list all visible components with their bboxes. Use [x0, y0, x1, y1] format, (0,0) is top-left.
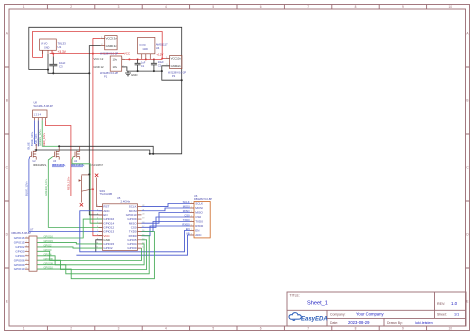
- wire RXD0: [142, 226, 191, 236]
- svg-text:U6: U6: [194, 194, 198, 198]
- U6 pin stubs: [190, 204, 194, 236]
- svg-text:BLUE: BLUE: [27, 142, 31, 149]
- wire navy channel pin2: [37, 120, 39, 146]
- wire MISO: [142, 213, 191, 224]
- frame column ticks top: [47, 5, 426, 10]
- svg-text:B: B: [466, 99, 468, 103]
- svg-text:C2: C2: [158, 63, 162, 67]
- svg-text:2: 2: [70, 5, 72, 9]
- svg-text:C3: C3: [59, 64, 63, 68]
- U5 right pin names: [126, 205, 138, 251]
- wire U1 input jog: [33, 50, 43, 57]
- regulator U1: [40, 39, 57, 54]
- wire gnd horizontal: [29, 70, 90, 74]
- node 12v rail P1: [128, 58, 130, 60]
- svg-text:VCC 12: VCC 12: [94, 57, 104, 61]
- connector U6 box: [194, 202, 210, 238]
- wire 12V top red: [33, 32, 166, 59]
- svg-text:Sheet_1: Sheet_1: [307, 301, 328, 307]
- svg-text:9: 9: [402, 327, 404, 331]
- title block row line 1: [287, 309, 466, 311]
- svg-text:E: E: [6, 300, 8, 304]
- wire gnd rail lower: [127, 70, 162, 72]
- svg-text:GPIO16: GPIO16: [14, 236, 25, 240]
- U6 net labels: [182, 200, 190, 236]
- svg-text:4: 4: [191, 216, 192, 218]
- svg-text:8: 8: [191, 234, 192, 236]
- svg-text:WJ128V-5.0-2P: WJ128V-5.0-2P: [168, 71, 186, 75]
- svg-text:Sheet:: Sheet:: [437, 313, 447, 317]
- svg-text:1: 1: [23, 327, 25, 331]
- svg-text:5: 5: [26, 254, 27, 256]
- svg-text:TS-KG03B: TS-KG03B: [100, 192, 113, 196]
- node gnd junction C3: [52, 72, 54, 74]
- svg-text:3: 3: [118, 327, 120, 331]
- wire EN from switch net: [89, 174, 102, 215]
- svg-text:10v: 10v: [113, 65, 118, 69]
- wire 3.3V rail: [50, 50, 124, 53]
- svg-text:IRF244NS,: IRF244NS,: [33, 163, 47, 167]
- svg-text:GND 12: GND 12: [94, 65, 105, 69]
- svg-text:GPIO4: GPIO4: [15, 254, 25, 258]
- node switch wiper junction: [92, 188, 94, 190]
- wire green channel pin3: [41, 120, 43, 146]
- svg-text:10: 10: [449, 327, 453, 331]
- wire GPIO06 loop: [37, 240, 147, 270]
- svg-text:10: 10: [449, 5, 453, 9]
- svg-text:2: 2: [191, 207, 192, 209]
- U6 pin names: [195, 202, 203, 238]
- capacitor C1: [135, 59, 141, 71]
- wire EN loop: [76, 235, 190, 255]
- title block rev divider: [434, 292, 436, 318]
- U5 right pin stubs: [138, 207, 142, 249]
- svg-text:5: 5: [212, 327, 214, 331]
- node 12v rail P2: [161, 58, 163, 60]
- svg-text:GPIO10: GPIO10: [14, 267, 25, 271]
- wire GND loop: [29, 27, 182, 154]
- svg-text:10uF: 10uF: [158, 60, 164, 64]
- svg-text:1: 1: [26, 237, 27, 239]
- node rail Q2 drain: [58, 145, 60, 147]
- svg-text:REV:: REV:: [437, 302, 445, 306]
- svg-text:C1: C1: [141, 64, 145, 68]
- svg-text:BLUE_12V+: BLUE_12V+: [30, 131, 34, 146]
- wire source rail A green part: [42, 145, 58, 147]
- svg-text:P2: P2: [172, 74, 176, 78]
- wire TXD0: [142, 222, 191, 232]
- node rail Q1 drain: [35, 149, 37, 151]
- svg-text:IRF2440S,: IRF2440S,: [52, 163, 66, 167]
- svg-text:Date:: Date:: [330, 321, 338, 325]
- node switch top junction: [88, 173, 90, 175]
- EasyEDA logo icon: [289, 313, 301, 321]
- svg-text:RED_12V+: RED_12V+: [66, 176, 70, 190]
- node gnd junction 1: [47, 69, 49, 71]
- frame row ticks left: [5, 67, 10, 268]
- transistor Q1: [30, 144, 36, 160]
- svg-text:1: 1: [191, 202, 192, 204]
- wire CS0: [142, 217, 191, 227]
- wire GPIO4 loop: [37, 244, 144, 265]
- svg-text:1: 1: [23, 5, 25, 9]
- svg-text:RXD0: RXD0: [195, 224, 203, 228]
- connector VCC3.3 box: [101, 36, 117, 50]
- svg-text:3: 3: [191, 211, 192, 213]
- U7 pin names blue: [14, 236, 25, 271]
- wire GPIO2: [37, 247, 103, 248]
- svg-text:RED_12V+: RED_12V+: [42, 132, 46, 146]
- svg-text:2: 2: [26, 241, 27, 243]
- svg-text:B: B: [6, 99, 8, 103]
- svg-text:8: 8: [355, 5, 357, 9]
- svg-text:10v: 10v: [113, 57, 118, 61]
- svg-text:3.3v: 3.3v: [111, 44, 117, 48]
- svg-text:CS190867: CS190867: [90, 163, 104, 167]
- svg-text:GPIO2: GPIO2: [15, 245, 25, 249]
- title block outline: [287, 292, 466, 326]
- svg-text:ADC: ADC: [195, 233, 202, 237]
- svg-text:GPIO0: GPIO0: [15, 249, 25, 253]
- svg-text:E: E: [466, 300, 468, 304]
- op-amp U5 MCU box: [103, 204, 138, 251]
- wire GPIO15: [37, 242, 103, 244]
- transistor Q2: [53, 146, 59, 159]
- node rail junction C3: [52, 53, 54, 55]
- node gnd junction riser: [88, 72, 90, 74]
- U5 right pin numbers: [142, 205, 145, 249]
- svg-text:6: 6: [191, 225, 192, 227]
- no-connect cross top: [95, 174, 98, 177]
- svg-text:GND: GND: [131, 73, 137, 77]
- node loop edge junction: [181, 79, 183, 81]
- capacitor C3: [49, 57, 57, 74]
- svg-text:DB128V-5.08-8P: DB128V-5.08-8P: [12, 231, 32, 235]
- svg-text:3.3v: 3.3v: [111, 37, 117, 41]
- node 12v rail C2: [153, 58, 155, 60]
- svg-text:8: 8: [26, 268, 27, 270]
- switch SW1: [81, 175, 102, 207]
- svg-text:WJ128L-5.08-3P: WJ128L-5.08-3P: [34, 104, 54, 108]
- wire GPIO16: [37, 219, 103, 238]
- svg-text:DB128V-5.0-8P: DB128V-5.0-8P: [194, 197, 212, 201]
- svg-text:luki.leisten: luki.leisten: [415, 321, 433, 325]
- switch wiper arrow: [79, 179, 82, 181]
- svg-text:GPIO15: GPIO15: [14, 241, 25, 245]
- svg-text:2023-08-29: 2023-08-29: [348, 320, 370, 325]
- svg-text:GREEN_12V+: GREEN_12V+: [38, 129, 42, 146]
- ground symbol: [125, 71, 131, 76]
- svg-text:GREEN_12V+: GREEN_12V+: [44, 178, 48, 196]
- wire Q1 gate blue long: [29, 157, 103, 232]
- U6 pin numbers: [191, 202, 192, 236]
- svg-text:7: 7: [191, 229, 192, 231]
- svg-text:4: 4: [165, 5, 167, 9]
- connector U7 box: [29, 236, 37, 271]
- svg-text:GPIO06: GPIO06: [14, 258, 25, 262]
- svg-text:WJ128V-5.0-2P: WJ128V-5.0-2P: [100, 51, 118, 55]
- wire U1 gnd pin down: [47, 54, 49, 70]
- wire Q3 gate green long: [72, 157, 103, 224]
- wire Q2 gate green long: [48, 157, 102, 228]
- svg-text:7: 7: [26, 263, 27, 265]
- wire GPIO09 loop: [37, 236, 149, 274]
- connector P1 box: [110, 56, 125, 71]
- svg-text:4: 4: [165, 327, 167, 331]
- transistor Q3: [73, 146, 79, 159]
- capacitor C3 red lead: [52, 54, 54, 57]
- wire P2 gnd to loop: [162, 66, 182, 80]
- wire GPIO0 loop: [37, 248, 142, 260]
- wire MOSI: [142, 208, 191, 211]
- connector U8 RGB box: [33, 110, 47, 120]
- svg-text:CS0: CS0: [195, 215, 201, 219]
- svg-text:9: 9: [402, 5, 404, 9]
- node junction on loop bottom 2: [152, 153, 154, 155]
- svg-text:GPIO0: GPIO0: [127, 246, 137, 250]
- no-connect cross bottom: [80, 203, 83, 206]
- svg-text:MOSI: MOSI: [195, 206, 203, 210]
- wire vcc rail down to U5: [93, 38, 103, 235]
- svg-text:12v: 12v: [176, 57, 181, 61]
- svg-text:EasyEDA: EasyEDA: [301, 316, 328, 322]
- svg-text:6: 6: [260, 327, 262, 331]
- wire source rail B: [35, 150, 150, 154]
- svg-text:TXD0: TXD0: [195, 220, 203, 224]
- wire gnd3.3 pin2 black: [89, 46, 100, 175]
- wire SCLK: [142, 204, 191, 207]
- frame row ticks right: [466, 67, 470, 268]
- svg-text:P1: P1: [104, 74, 108, 78]
- frame column ticks bottom: [47, 326, 426, 331]
- svg-text:+12V: +12V: [156, 52, 163, 56]
- svg-text:VCC: VCC: [124, 51, 131, 55]
- node 12v rail C1: [137, 58, 139, 60]
- title block row line 2: [327, 317, 466, 319]
- svg-text:VI VO: VI VO: [139, 44, 146, 47]
- svg-text:7: 7: [307, 327, 309, 331]
- regulator U4: [138, 37, 155, 59]
- node 12v rail U4: [145, 58, 147, 60]
- svg-text:U8: U8: [34, 101, 38, 105]
- svg-text:1 2 3 4: 1 2 3 4: [34, 113, 42, 116]
- U7 pin stubs: [25, 238, 29, 269]
- wire ADC loop: [80, 211, 190, 252]
- svg-text:GPIO09: GPIO09: [14, 263, 25, 267]
- wire blue channel to Q1: [34, 120, 36, 144]
- U5 left pin numbers: [96, 205, 99, 249]
- svg-text:WJ128V-5.0-2P: WJ128V-5.0-2P: [100, 71, 118, 75]
- svg-text:6: 6: [260, 5, 262, 9]
- svg-text:U7: U7: [30, 227, 34, 231]
- wire vcc3.3 pin1 red: [93, 37, 101, 39]
- svg-text:BLUE_12V+: BLUE_12V+: [25, 181, 29, 196]
- svg-text:SCLK: SCLK: [195, 202, 203, 206]
- svg-text:Company:: Company:: [330, 312, 346, 316]
- svg-text:3: 3: [26, 246, 27, 248]
- U7 pin numbers: [26, 237, 27, 270]
- title block date divider: [383, 318, 385, 326]
- svg-text:U1: U1: [58, 45, 62, 49]
- node gnd rail C2: [153, 70, 155, 72]
- U5 left pin names: [103, 205, 114, 251]
- svg-text:2: 2: [70, 327, 72, 331]
- wire source rail A dark part: [58, 146, 153, 154]
- svg-text:1.0: 1.0: [451, 301, 458, 306]
- svg-text:TITLE:: TITLE:: [290, 294, 300, 298]
- svg-text:6: 6: [26, 259, 27, 261]
- svg-text:EN: EN: [195, 229, 199, 233]
- node rail junction vcc drop: [92, 53, 94, 55]
- svg-text:1/1: 1/1: [454, 313, 459, 317]
- svg-text:8: 8: [355, 327, 357, 331]
- wire red channel jog: [45, 120, 71, 196]
- svg-text:Your Company: Your Company: [356, 312, 384, 317]
- svg-text:MISO: MISO: [195, 211, 203, 215]
- svg-text:VI VO: VI VO: [41, 43, 48, 46]
- node gnd rail C1: [137, 70, 139, 72]
- node gnd rail end: [161, 70, 163, 72]
- svg-text:GND: GND: [143, 48, 149, 51]
- svg-text:2.4GHz: 2.4GHz: [121, 200, 131, 204]
- svg-text:7: 7: [307, 5, 309, 9]
- U7 net labels green: [44, 235, 54, 270]
- wire P1 pin2 to gnd rail: [122, 67, 127, 71]
- svg-text:Drawn By:: Drawn By:: [387, 321, 403, 325]
- svg-text:12v: 12v: [176, 64, 181, 68]
- title block logo cell divider: [326, 310, 328, 326]
- wire 12v rail red: [125, 58, 162, 60]
- capacitor C2: [151, 59, 157, 71]
- U5 left pin stubs: [99, 207, 103, 249]
- svg-text:5: 5: [212, 5, 214, 9]
- connector P2 box: [166, 56, 182, 69]
- wire U5 GND left: [96, 240, 103, 252]
- svg-text:U4: U4: [156, 46, 160, 50]
- node junction on loop bottom 1: [149, 153, 151, 155]
- svg-text:5: 5: [191, 220, 192, 222]
- svg-text:GND: GND: [44, 46, 50, 49]
- svg-text:GPIO2: GPIO2: [103, 246, 113, 250]
- svg-text:4: 4: [26, 250, 27, 252]
- svg-text:3: 3: [118, 5, 120, 9]
- wire GPIO10 loop: [37, 232, 154, 279]
- svg-text:1uF: 1uF: [141, 61, 146, 65]
